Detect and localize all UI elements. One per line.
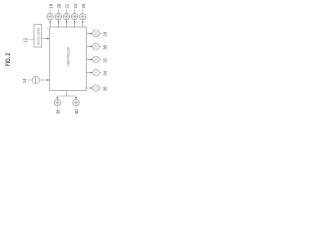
arrowhead into controller [47, 38, 49, 40]
bottom lamp 38 [54, 97, 61, 114]
svg-text:12: 12 [22, 37, 27, 42]
arrowhead into controller [47, 79, 49, 81]
svg-text:34: 34 [103, 70, 108, 75]
controller box 16 [50, 27, 86, 91]
leader for 14 [27, 79, 32, 81]
svg-text:30: 30 [103, 44, 108, 49]
svg-text:24: 24 [73, 3, 78, 8]
top motor 18 [47, 3, 54, 27]
svg-text:38: 38 [55, 109, 60, 114]
svg-text:26: 26 [81, 3, 86, 8]
right lamp 34 [86, 69, 108, 76]
top motor 24 [71, 3, 78, 27]
top motor 20 [55, 3, 62, 27]
leader for numeral 16 [46, 28, 50, 30]
top motor 26 [79, 3, 86, 27]
right lamp 32 [86, 56, 108, 63]
right lamp 30 [86, 43, 108, 50]
leader for 12 [27, 38, 34, 40]
svg-text:CONTROLLER: CONTROLLER [66, 47, 70, 67]
svg-text:36: 36 [103, 86, 108, 91]
svg-text:18: 18 [48, 3, 53, 8]
sensor circle 14 [32, 76, 39, 83]
svg-text:40: 40 [74, 109, 79, 114]
figure title FIG. 2 [5, 53, 12, 67]
remote control box 12 [34, 24, 42, 47]
right lamp 28 [86, 30, 108, 37]
right lamp 36 [86, 85, 108, 92]
svg-text:28: 28 [103, 31, 108, 36]
bottom lamp 40 [73, 97, 80, 114]
top motor 22 [63, 3, 70, 27]
svg-text:REMOTE CONTROL: REMOTE CONTROL [36, 27, 40, 45]
svg-text:FIG. 2: FIG. 2 [5, 53, 12, 67]
svg-text:20: 20 [57, 3, 62, 8]
svg-text:32: 32 [103, 57, 108, 62]
svg-text:22: 22 [65, 3, 70, 8]
bottom wire split [57, 91, 76, 98]
wire sensor to controller [39, 79, 47, 81]
svg-text:14: 14 [22, 78, 27, 83]
wire remote to controller [42, 38, 48, 40]
